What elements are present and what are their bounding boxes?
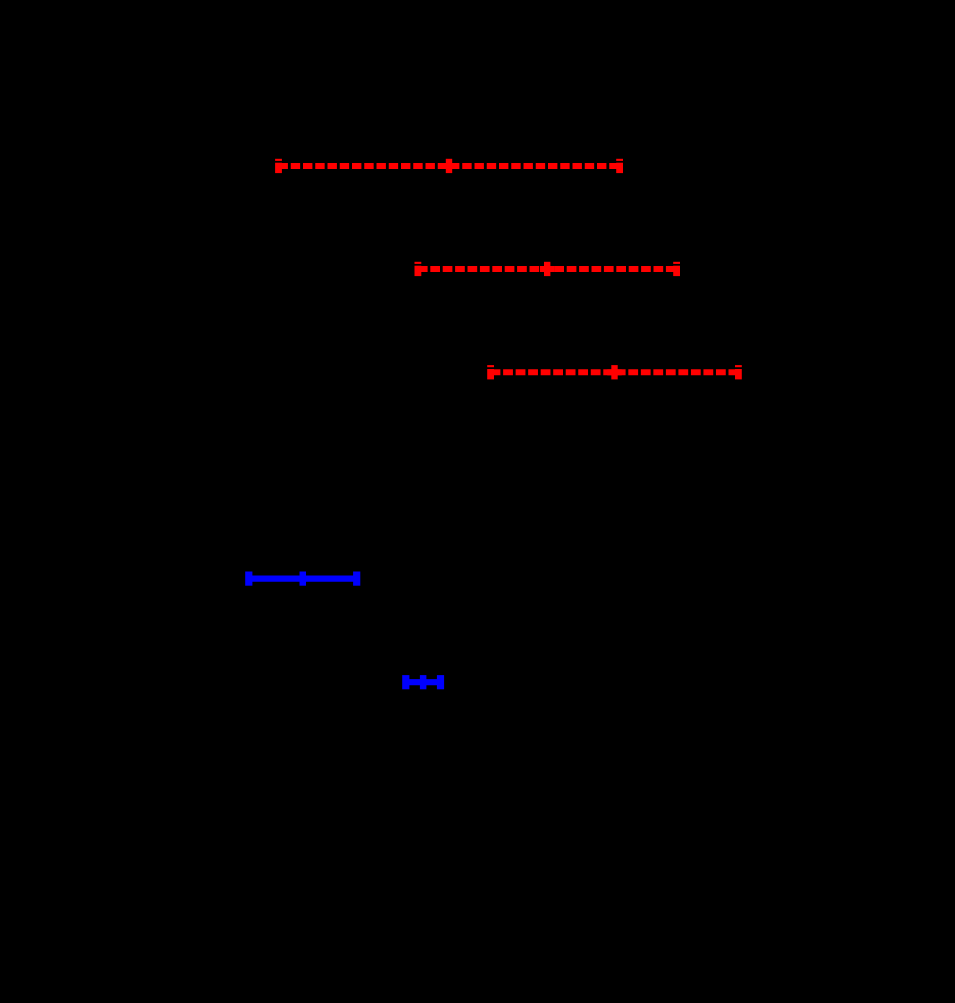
blue error bar 1 right cap <box>353 572 360 586</box>
red dashed error bar 3 (row 3) horizontal line <box>491 369 739 375</box>
blue error bar 1 left cap <box>245 572 252 586</box>
red error bar 1 right cap <box>616 159 623 173</box>
blue error bar 2 right cap <box>437 675 444 689</box>
blue error bar 2 left cap <box>402 675 409 689</box>
red error bar 1 left cap <box>275 159 282 173</box>
red error bar 2 left cap <box>415 262 422 276</box>
red error bar 2 right cap <box>673 262 680 276</box>
red error bar 3 left cap <box>487 365 494 379</box>
red error bar 2 center plus marker <box>540 262 554 276</box>
red dashed error bar 1 (row 1) horizontal line <box>279 163 620 169</box>
red dashed error bar 2 (row 2) horizontal line <box>418 266 677 272</box>
blue error bar 2 center plus marker <box>420 675 427 689</box>
blue solid error bar 2 (row 6) horizontal line <box>406 679 441 685</box>
red error bar 1 center plus marker <box>442 159 456 173</box>
red error bar 3 right cap <box>735 365 742 379</box>
blue solid error bar 1 (row 5) horizontal line <box>249 575 357 581</box>
blue error bar 1 center plus marker <box>300 572 307 586</box>
red error bar 3 center plus marker <box>607 365 621 379</box>
